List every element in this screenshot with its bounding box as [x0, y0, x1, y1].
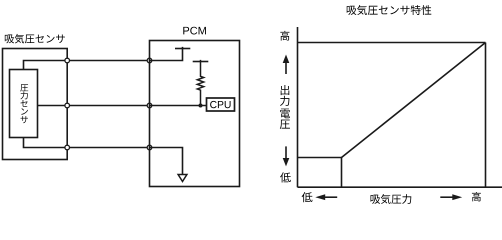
knee reference dropline — [341, 158, 343, 188]
wire: VC supply from sensor to PCM — [24, 61, 150, 70]
axis label: high (高) x-axis — [472, 192, 481, 201]
junction: resistor to signal node — [199, 104, 203, 108]
ground symbol — [178, 175, 187, 182]
chart frame top — [298, 42, 486, 44]
label: CPU — [210, 101, 230, 108]
power rail symbol (VC) — [175, 48, 190, 50]
chart y-axis — [297, 27, 299, 187]
right arrow (intake pressure increases) — [440, 194, 462, 200]
connector terminal: sensor signal terminal — [65, 103, 70, 108]
chart frame right — [485, 43, 487, 188]
power rail symbol (pull-up supply) — [193, 61, 209, 63]
label: pressure sensor (圧力センサ vertical) — [20, 84, 28, 123]
PCM housing box — [150, 41, 240, 187]
label: intake pressure sensor (吸気圧センサ) — [5, 34, 65, 44]
intake pressure sensor housing — [3, 49, 68, 160]
wire: signal into CPU — [150, 105, 207, 107]
connector terminal: PCM VC terminal — [147, 58, 152, 63]
axis label: output voltage (出力電圧 vertical) — [280, 85, 290, 129]
chart title: 吸気圧センサ特性 — [347, 5, 432, 15]
wire: VC to supply rail — [150, 47, 183, 61]
axis label: high (高) y-axis — [280, 31, 289, 41]
axis label: intake pressure (吸気圧力) — [371, 194, 412, 204]
curve: rising segment — [342, 43, 486, 158]
axis label: low (低) x-axis — [302, 192, 313, 202]
wire: signal output from sensor to PCM — [38, 105, 150, 107]
connector terminal: sensor ground terminal — [65, 145, 70, 150]
wire: ground return from sensor to PCM — [24, 138, 150, 148]
curve: flat low segment — [298, 157, 342, 159]
CPU box — [207, 98, 235, 111]
left arrow (intake pressure decreases) — [315, 194, 337, 200]
pressure sensor element box — [10, 70, 38, 138]
chart x-axis — [298, 186, 502, 188]
down arrow (output voltage decreases) — [283, 146, 290, 166]
wire: ground leg — [150, 148, 183, 175]
connector terminal: PCM ground terminal — [147, 145, 152, 150]
up arrow (output voltage increases) — [283, 55, 290, 75]
connector terminal: PCM signal terminal — [147, 103, 152, 108]
resistor: pull-up — [197, 60, 203, 106]
connector terminal: sensor VC terminal — [65, 58, 70, 63]
axis label: low (低) y-axis — [280, 172, 291, 182]
label: PCM — [183, 27, 206, 35]
